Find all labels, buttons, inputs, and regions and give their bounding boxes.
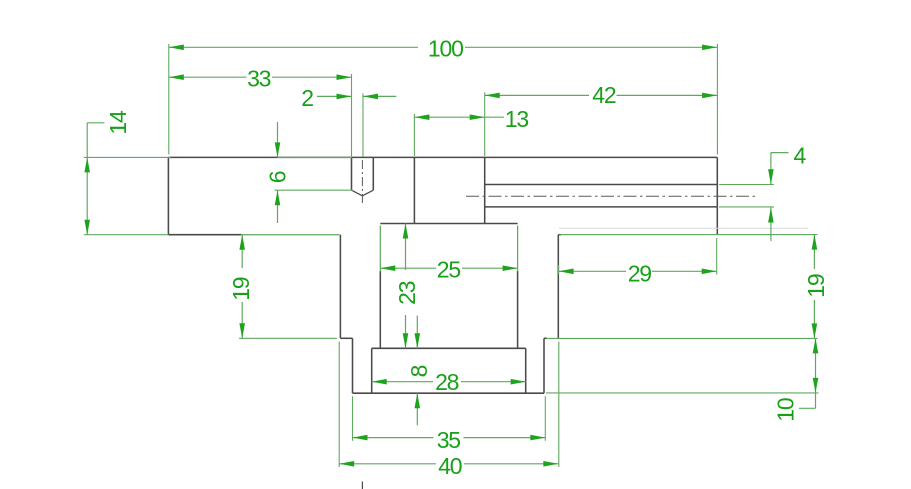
svg-text:42: 42 [592, 82, 616, 108]
svg-text:6: 6 [264, 171, 290, 183]
svg-text:23: 23 [394, 281, 420, 305]
svg-text:35: 35 [437, 427, 461, 453]
svg-text:13: 13 [505, 106, 529, 132]
svg-text:33: 33 [247, 65, 271, 91]
svg-text:19: 19 [228, 277, 254, 301]
svg-text:19: 19 [803, 274, 829, 298]
svg-text:100: 100 [428, 36, 463, 62]
svg-text:40: 40 [438, 453, 462, 479]
svg-text:29: 29 [628, 260, 652, 286]
svg-text:28: 28 [435, 369, 459, 395]
svg-text:25: 25 [437, 256, 461, 282]
svg-text:10: 10 [773, 398, 799, 422]
svg-text:4: 4 [794, 143, 807, 169]
svg-text:8: 8 [406, 365, 432, 377]
svg-text:14: 14 [105, 110, 131, 135]
svg-text:2: 2 [301, 85, 313, 111]
